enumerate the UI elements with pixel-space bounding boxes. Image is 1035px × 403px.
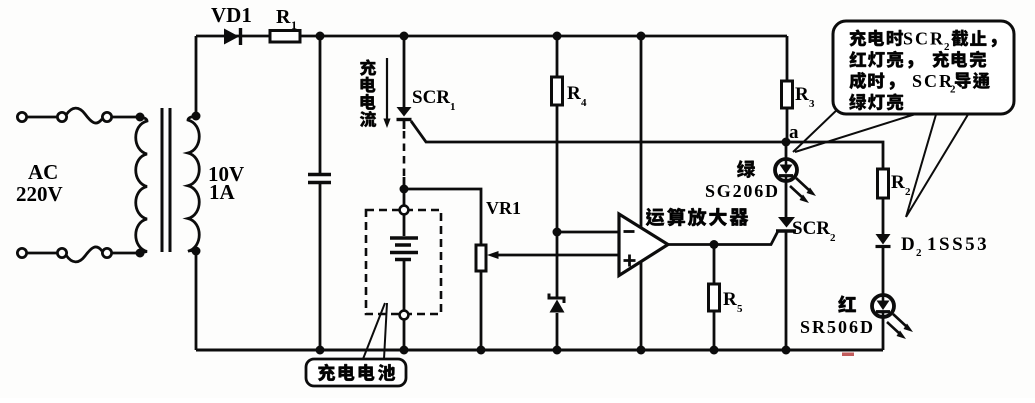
node inverting input junction bbox=[553, 228, 562, 237]
cord eyelet top left bbox=[57, 112, 66, 121]
AC plug bottom prong bbox=[17, 248, 26, 257]
wire battery bottom bbox=[403, 261, 406, 311]
wire mid vertical bbox=[640, 36, 643, 350]
wire op-amp output bbox=[668, 232, 778, 245]
label red bbox=[838, 295, 856, 312]
wire LED to SCR2 bbox=[785, 182, 788, 218]
LED red SR506D bbox=[872, 295, 894, 317]
wire R5 top bbox=[713, 245, 716, 285]
wire SCR2 cathode bbox=[785, 231, 788, 350]
wire battery to rail bbox=[403, 320, 406, 351]
node top rail / R4 bbox=[553, 32, 562, 41]
node zener bottom rail bbox=[553, 346, 562, 355]
svg-text:4: 4 bbox=[581, 97, 587, 109]
wire R3 to node a bbox=[786, 108, 789, 142]
node top rail / capacitor bbox=[316, 32, 325, 41]
svg-text:SCR: SCR bbox=[903, 29, 945, 49]
svg-text:R: R bbox=[891, 172, 905, 193]
wire R4 to zener bbox=[556, 105, 559, 297]
cord eyelet bottom right bbox=[102, 248, 111, 257]
transformer secondary winding bbox=[188, 116, 199, 251]
resistor R5 bbox=[709, 284, 720, 311]
transformer core bbox=[162, 108, 170, 252]
svg-text:VD1: VD1 bbox=[211, 3, 252, 27]
charging current arrow bbox=[386, 58, 388, 120]
wire R3 top bbox=[786, 36, 789, 81]
label op-amp bbox=[646, 208, 665, 226]
svg-text:SG206D: SG206D bbox=[705, 181, 780, 201]
resistor R1 bbox=[270, 31, 300, 43]
cord eyelet top right bbox=[102, 112, 111, 121]
node secondary top bbox=[192, 112, 201, 121]
node primary top bbox=[136, 113, 145, 122]
svg-text:R: R bbox=[276, 6, 291, 28]
diode VD1 bbox=[224, 29, 239, 45]
op-amp U1 bbox=[619, 214, 668, 276]
svg-text:2: 2 bbox=[830, 232, 836, 244]
svg-text:SCR: SCR bbox=[412, 87, 450, 108]
node capacitor bottom bbox=[316, 346, 325, 355]
cord wavy top bbox=[66, 108, 102, 123]
svg-text:AC: AC bbox=[28, 160, 58, 184]
wire battery top bbox=[403, 215, 406, 237]
wire left vertical (secondary top to rail) bbox=[195, 36, 198, 116]
battery GB cells bbox=[390, 238, 418, 260]
wire node a to R2 branch bbox=[786, 142, 883, 169]
wire VR1 bottom bbox=[480, 271, 483, 350]
wire top rail bbox=[196, 35, 787, 38]
callout battery pointer bbox=[363, 303, 387, 359]
wire inverting input bbox=[557, 231, 619, 234]
resistor R4 bbox=[552, 77, 563, 105]
svg-text:1SS53: 1SS53 bbox=[927, 234, 989, 255]
zener diode VS bbox=[549, 294, 564, 304]
cord eyelet bottom left bbox=[57, 248, 66, 257]
svg-text:R: R bbox=[795, 84, 809, 105]
battery dashed box bbox=[366, 210, 441, 314]
VR1 wiper arrow bbox=[497, 254, 619, 257]
svg-text:D: D bbox=[901, 234, 915, 255]
bubble pointer to D2 bbox=[906, 115, 968, 218]
svg-text:1A: 1A bbox=[209, 180, 236, 204]
node battery bottom rail bbox=[400, 346, 409, 355]
svg-text:5: 5 bbox=[737, 303, 743, 315]
svg-text:2: 2 bbox=[950, 84, 956, 96]
node SCR2 bottom rail bbox=[782, 346, 791, 355]
node top rail / SCR1 bbox=[400, 32, 409, 41]
node a bbox=[782, 138, 791, 147]
wire R5 bottom bbox=[713, 311, 716, 350]
svg-text:2: 2 bbox=[905, 186, 911, 198]
wire capacitor top bbox=[319, 36, 322, 173]
wire SCR1 anode bbox=[403, 36, 406, 107]
cord wavy bottom bbox=[66, 247, 102, 262]
label charging current bbox=[360, 59, 376, 75]
wire capacitor bottom bbox=[319, 184, 322, 350]
wire zener to rail bbox=[556, 313, 559, 350]
svg-text:SCR: SCR bbox=[912, 71, 954, 91]
svg-text:a: a bbox=[789, 122, 799, 143]
node top rail / mid bbox=[637, 32, 646, 41]
node R5 bottom rail bbox=[710, 346, 719, 355]
wire plug bottom bbox=[27, 252, 57, 255]
wire bottom rail bbox=[196, 349, 883, 352]
node R5 top bbox=[710, 240, 719, 249]
svg-text:SCR: SCR bbox=[792, 218, 830, 239]
svg-text:1: 1 bbox=[450, 101, 456, 113]
callout battery box bbox=[306, 359, 406, 386]
LED green SG206D bbox=[775, 159, 797, 181]
label rechargeable battery bbox=[318, 364, 335, 381]
node secondary bottom bbox=[192, 247, 201, 256]
label green bbox=[737, 160, 755, 178]
op-amp minus sign bbox=[624, 230, 635, 233]
battery bottom terminal bbox=[400, 311, 409, 320]
svg-text:2: 2 bbox=[944, 41, 950, 53]
wire node a to LED bbox=[785, 142, 788, 159]
svg-text:220V: 220V bbox=[16, 182, 63, 206]
thyristor SCR1 bbox=[397, 107, 412, 117]
AC plug top prong bbox=[17, 112, 26, 121]
resistor R3 bbox=[782, 81, 793, 108]
red artifact mark bbox=[842, 353, 854, 357]
potentiometer VR1 bbox=[476, 245, 486, 271]
wire D2 to red LED bbox=[882, 247, 885, 294]
wire battery junction to VR1 bbox=[404, 189, 481, 245]
battery top terminal bbox=[400, 206, 409, 215]
wire SCR1 gate bbox=[411, 121, 786, 142]
transformer primary winding bbox=[136, 117, 147, 253]
svg-text:SR506D: SR506D bbox=[800, 317, 875, 337]
wire R4 top bbox=[556, 36, 559, 77]
node mid bottom rail bbox=[637, 346, 646, 355]
node primary bottom bbox=[136, 249, 145, 258]
op-amp plus sign bbox=[624, 255, 636, 267]
bubble pointer to LED bbox=[793, 106, 914, 152]
diode D2 bbox=[876, 234, 891, 245]
wire plug top bbox=[27, 116, 57, 119]
resistor R2 bbox=[878, 169, 889, 198]
svg-text:3: 3 bbox=[809, 98, 815, 110]
svg-text:2: 2 bbox=[916, 247, 922, 259]
wire to primary bottom bbox=[112, 252, 140, 255]
svg-text:R: R bbox=[723, 289, 737, 310]
wire SCR1 cathode dashed bbox=[403, 121, 406, 129]
node battery top junction bbox=[400, 185, 409, 194]
wire secondary bottom down bbox=[195, 251, 198, 350]
capacitor C bbox=[308, 175, 331, 183]
wire R2 to D2 bbox=[882, 198, 885, 234]
node VR1 bottom rail bbox=[477, 346, 486, 355]
svg-text:VR1: VR1 bbox=[486, 198, 521, 218]
wire red LED to rail bbox=[882, 318, 885, 351]
wire to primary top bbox=[112, 116, 140, 119]
thyristor SCR2 bbox=[778, 217, 795, 228]
svg-text:R: R bbox=[567, 83, 581, 104]
svg-text:1: 1 bbox=[291, 18, 297, 32]
speech bubble box bbox=[833, 21, 1014, 114]
bubble text bbox=[849, 30, 866, 47]
